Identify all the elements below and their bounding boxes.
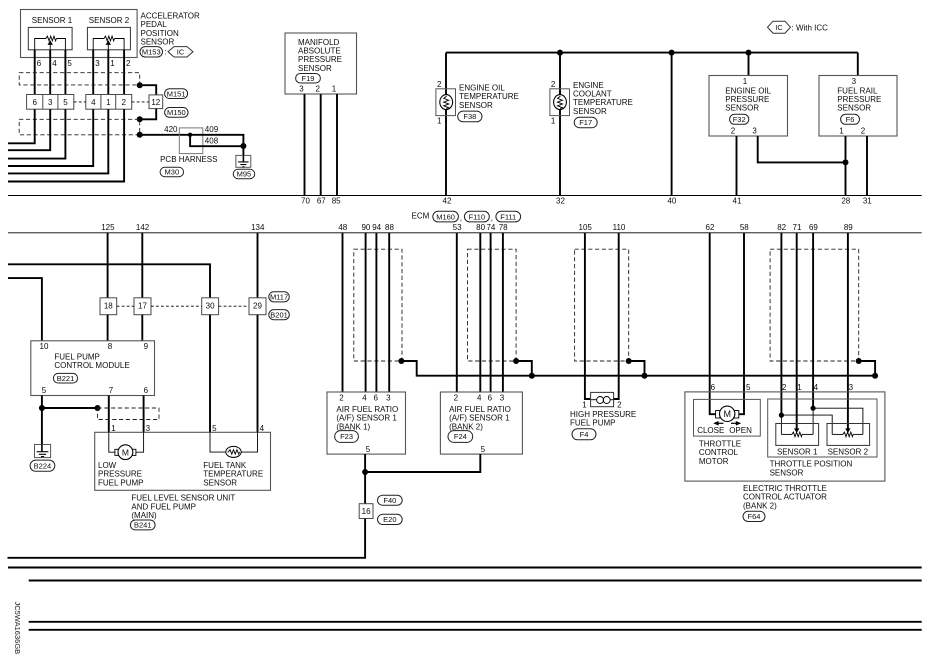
svg-text:12: 12	[151, 98, 160, 107]
throttle motor	[716, 411, 720, 419]
svg-text:1: 1	[332, 85, 337, 94]
svg-text:B224: B224	[34, 461, 52, 470]
svg-text:M153: M153	[142, 48, 161, 57]
wire staircase to left edge (x=93.2)	[8, 109, 93, 166]
svg-text:TEMPERATURE: TEMPERATURE	[573, 98, 633, 107]
svg-text:F110: F110	[469, 212, 486, 221]
junction node F23/F24 pin5	[362, 469, 368, 475]
svg-text:5: 5	[42, 386, 47, 395]
svg-text:AIR FUEL RATIO: AIR FUEL RATIO	[449, 405, 511, 414]
svg-text:ABSOLUTE: ABSOLUTE	[298, 47, 341, 56]
wire ECM 110 to pump pin2	[613, 233, 619, 399]
wire F6 pin1 to ECM 28	[845, 136, 847, 196]
junction node bus/F17	[557, 50, 563, 56]
svg-text:FUEL TANK: FUEL TANK	[203, 461, 247, 470]
svg-text:8: 8	[108, 342, 113, 351]
svg-text:42: 42	[443, 197, 452, 206]
power bus wire (top)	[446, 52, 858, 54]
wire staircase to left edge (x=65.4)	[8, 109, 65, 158]
connector label F111	[496, 211, 521, 222]
svg-text:5: 5	[481, 445, 486, 454]
wire ECM 125 to connector 18	[107, 233, 109, 298]
svg-text:2: 2	[126, 59, 131, 68]
connector boxes 4 1 2	[86, 95, 132, 110]
wire 420 shield drain to PCB harness	[140, 134, 190, 136]
connector label M150	[165, 108, 189, 118]
bus line 4	[29, 629, 922, 631]
connector label M153	[140, 47, 163, 57]
wire staircase to left edge (x=108.3)	[8, 109, 108, 173]
svg-text:10: 10	[40, 342, 49, 351]
svg-text:58: 58	[740, 223, 749, 232]
potentiometer sensor 1 element	[781, 433, 791, 435]
svg-text:2: 2	[861, 127, 866, 136]
svg-text:SENSOR 1: SENSOR 1	[777, 447, 818, 456]
svg-text:2: 2	[782, 383, 787, 392]
ground M95	[236, 155, 251, 167]
motor low pressure fuel pump	[115, 449, 119, 455]
svg-text:4: 4	[260, 424, 265, 433]
svg-text:40: 40	[667, 197, 676, 206]
junction node pin5	[39, 405, 45, 411]
potentiometer SENSOR 2	[87, 27, 130, 49]
connector label B201	[269, 310, 290, 320]
shield node pump	[626, 358, 632, 364]
svg-text:(MAIN): (MAIN)	[131, 511, 157, 520]
svg-text:CONTROL: CONTROL	[699, 448, 739, 457]
wire junction to connector 16	[364, 472, 366, 504]
svg-text:AND FUEL PUMP: AND FUEL PUMP	[131, 502, 196, 511]
svg-text:F17: F17	[579, 118, 592, 127]
ground B224	[35, 445, 51, 458]
svg-text:6: 6	[32, 98, 37, 107]
svg-text:105: 105	[579, 223, 593, 232]
electric throttle control actuator F64 box	[685, 392, 885, 481]
svg-text:M95: M95	[237, 170, 252, 179]
svg-text:LOW: LOW	[98, 461, 117, 470]
potentiometer SENSOR 1	[28, 27, 72, 49]
svg-text:PRESSURE: PRESSURE	[98, 470, 142, 479]
connector box 30	[202, 298, 219, 315]
svg-text:1: 1	[106, 98, 111, 107]
wire APP sensor pin to connector (x=124.1)	[123, 50, 125, 95]
svg-text:ENGINE: ENGINE	[573, 81, 604, 90]
connector box 12	[149, 95, 163, 109]
svg-text:17: 17	[138, 302, 147, 311]
shield node throttle	[856, 358, 862, 364]
shield dashed box (fuel pump harness)	[98, 408, 160, 420]
svg-text:F23: F23	[340, 432, 353, 441]
PCB harness box M30	[179, 128, 203, 154]
junction node in PCB harness	[188, 133, 192, 137]
bus line 1	[8, 567, 922, 569]
shield drop throttle	[859, 361, 875, 376]
svg-text:(BANK 2): (BANK 2)	[743, 501, 777, 510]
svg-text:29: 29	[253, 302, 262, 311]
svg-text:16: 16	[362, 507, 371, 516]
wire staircase to left edge (x=34.7)	[8, 109, 35, 143]
wire bus to F17 to ECM 32	[559, 53, 561, 196]
svg-text:6: 6	[37, 59, 42, 68]
dashed connector link	[74, 101, 86, 103]
svg-text:F111: F111	[500, 212, 516, 221]
connector box 29	[249, 298, 266, 315]
fuel level sensor unit box B241	[95, 432, 271, 490]
svg-text:5: 5	[67, 59, 72, 68]
connector label F19	[296, 74, 321, 84]
connector boxes 6 3 5 (M151/M150)	[27, 95, 74, 110]
svg-text:CLOSE: CLOSE	[697, 426, 724, 435]
svg-text:2: 2	[339, 394, 344, 403]
svg-text:2: 2	[454, 394, 459, 403]
ground label M95	[233, 169, 255, 178]
fuel rail pressure sensor F6 box	[819, 76, 897, 137]
svg-text:SENSOR: SENSOR	[459, 101, 493, 110]
svg-text:(BANK 1): (BANK 1)	[336, 422, 370, 431]
wire ECM 105 to pump pin1	[585, 233, 590, 399]
junction node bus/F32	[746, 50, 752, 56]
svg-text:FUEL PUMP: FUEL PUMP	[98, 478, 144, 487]
svg-text:4: 4	[91, 98, 96, 107]
svg-text:3: 3	[146, 424, 151, 433]
shield junction node lower	[137, 132, 143, 138]
connector label F23	[335, 431, 359, 443]
wire connector 12 to lower shield node	[140, 109, 157, 120]
svg-text:SENSOR: SENSOR	[837, 104, 871, 113]
wire APP sensor pin to connector (x=34.7)	[34, 50, 36, 95]
wire ECM 89 to TPS wiper 2	[847, 233, 849, 429]
svg-text:SENSOR 2: SENSOR 2	[89, 16, 130, 25]
svg-text:THROTTLE POSITION: THROTTLE POSITION	[770, 460, 853, 469]
accelerator pedal position sensor M153 outer box	[21, 10, 138, 58]
svg-text:3: 3	[386, 394, 391, 403]
svg-text:1: 1	[839, 127, 844, 136]
wire to ground M95	[242, 146, 244, 155]
svg-text:ECM: ECM	[412, 211, 430, 220]
shield node bank2	[513, 358, 519, 364]
svg-text:M160: M160	[436, 212, 455, 221]
svg-text:CONTROL ACTUATOR: CONTROL ACTUATOR	[743, 493, 827, 502]
ECM bottom boundary line	[8, 232, 922, 234]
svg-text:F32: F32	[733, 115, 746, 124]
svg-text:,: ,	[460, 214, 462, 223]
air fuel ratio sensor 1 bank 2 F24 box	[440, 392, 522, 454]
wire bus to ECM 40	[671, 53, 673, 196]
svg-text:1: 1	[551, 117, 556, 126]
svg-text:OPEN: OPEN	[729, 426, 752, 435]
svg-text:(BANK 2): (BANK 2)	[449, 422, 483, 431]
svg-text:1: 1	[437, 117, 442, 126]
svg-text:ELECTRIC THROTTLE: ELECTRIC THROTTLE	[743, 484, 827, 493]
ground label B224	[30, 460, 55, 471]
open arrow	[731, 422, 738, 424]
potentiometer sensor 2 box	[827, 424, 870, 446]
svg-text:IC: IC	[177, 48, 185, 57]
wire connector 30 to fuel pump pin 5	[209, 315, 211, 433]
svg-text:,: ,	[491, 214, 493, 223]
junction node pin3/pin1 wire	[843, 159, 849, 165]
svg-text:TEMPERATURE: TEMPERATURE	[459, 92, 519, 101]
svg-text:FUEL PUMP: FUEL PUMP	[54, 353, 100, 362]
dashed connector links row 2	[117, 305, 134, 307]
svg-text:SENSOR 2: SENSOR 2	[828, 447, 869, 456]
connector label F110	[464, 211, 489, 222]
engine oil temperature sensor F38	[436, 89, 456, 116]
wire pin5 node to shield node	[42, 407, 98, 409]
wire APP sensor pin to connector (x=93.2)	[92, 50, 94, 95]
wire bus to F32 pin 1	[748, 53, 750, 76]
wire F19 pin2 to ECM 67	[320, 94, 322, 196]
svg-text:125: 125	[101, 223, 115, 232]
svg-text:67: 67	[317, 197, 326, 206]
svg-text:9: 9	[144, 342, 149, 351]
throttle position sensor box	[768, 399, 877, 457]
wire ECM 74 to F24 pin6	[490, 233, 492, 392]
svg-text:78: 78	[499, 223, 508, 232]
connector box 16	[359, 504, 373, 519]
wire F6 pin2 to ECM 31	[866, 136, 868, 196]
svg-text:ENGINE OIL: ENGINE OIL	[725, 86, 771, 95]
connector label B241	[130, 520, 155, 530]
wire connector 16 to bottom-left	[8, 519, 366, 558]
wire ECM 80 to F24 pin4	[479, 233, 481, 392]
connector label M160	[433, 211, 459, 222]
svg-text:ACCELERATOR: ACCELERATOR	[141, 11, 200, 20]
svg-text:2: 2	[731, 127, 736, 136]
svg-text:COOLANT: COOLANT	[573, 90, 612, 99]
svg-text:M: M	[122, 447, 129, 457]
svg-text:94: 94	[372, 223, 381, 232]
svg-text:4: 4	[362, 394, 367, 403]
svg-text:2: 2	[437, 80, 442, 89]
IC option hexagon	[168, 47, 193, 57]
wire staircase to left edge (x=50.2)	[8, 109, 50, 150]
svg-text:71: 71	[793, 223, 802, 232]
svg-text:62: 62	[706, 223, 715, 232]
svg-text:6: 6	[711, 383, 716, 392]
svg-text:E20: E20	[383, 515, 396, 524]
svg-text:6: 6	[373, 394, 378, 403]
engine oil pressure sensor F32 box	[709, 76, 788, 137]
shield dashed box M151 upper	[19, 73, 140, 85]
TPS pin4 down to pot1	[812, 408, 814, 434]
manifold absolute pressure sensor F19 box	[285, 33, 357, 94]
ECM top boundary line	[8, 195, 922, 197]
svg-text:MANIFOLD: MANIFOLD	[298, 38, 340, 47]
svg-text:6: 6	[488, 394, 493, 403]
wire ECM 90 to F23 pin4	[365, 233, 367, 392]
throttle control motor box	[694, 399, 761, 436]
wire 408	[190, 135, 243, 146]
wire bus to F6 pin 3	[857, 53, 859, 76]
shield junction node	[95, 405, 101, 411]
svg-text:SENSOR: SENSOR	[203, 478, 237, 487]
svg-text:SENSOR 1: SENSOR 1	[32, 16, 73, 25]
svg-text:53: 53	[453, 223, 462, 232]
bus line 3	[29, 621, 922, 623]
svg-text:4: 4	[477, 394, 482, 403]
wire ECM 48 to F23 pin2	[342, 233, 344, 392]
svg-text:4: 4	[814, 383, 819, 392]
svg-text:31: 31	[863, 197, 872, 206]
shield dashed box A/F bank1	[354, 249, 402, 361]
svg-text:PRESSURE: PRESSURE	[725, 95, 769, 104]
svg-text:1: 1	[743, 77, 748, 86]
svg-text:2: 2	[315, 85, 320, 94]
wire from left edge to connector 30	[8, 264, 210, 298]
svg-text:3: 3	[849, 383, 854, 392]
connector label F38	[458, 111, 482, 122]
svg-text:5: 5	[746, 383, 751, 392]
svg-text:3: 3	[500, 394, 505, 403]
wire ECM 142 to connector 17	[141, 233, 143, 298]
connector box 18	[100, 298, 117, 315]
svg-text:1: 1	[110, 59, 115, 68]
wire ECM 88 to F23 pin3	[388, 233, 390, 392]
svg-text:420: 420	[164, 125, 178, 134]
svg-text:F40: F40	[383, 496, 396, 505]
wiper arrow sensor 2	[845, 428, 850, 433]
shield dashed box throttle sensors	[770, 249, 859, 361]
svg-text:1: 1	[111, 424, 116, 433]
wire ECM 69 to TPS	[812, 233, 814, 408]
svg-text:5: 5	[366, 445, 371, 454]
svg-text:2: 2	[617, 401, 622, 410]
svg-text:89: 89	[844, 223, 853, 232]
wire F19 pin3 to ECM 70	[304, 94, 306, 196]
wire F23 pin5 down	[364, 454, 366, 472]
TPS jumper pin4	[811, 406, 816, 411]
wire shield to connector 12	[140, 85, 157, 95]
svg-text:3: 3	[95, 59, 100, 68]
svg-text:90: 90	[361, 223, 370, 232]
connector label F32	[730, 114, 749, 124]
wire F32 pin2 to ECM 41	[736, 136, 738, 196]
svg-text:1: 1	[797, 383, 802, 392]
svg-text::: :	[164, 48, 166, 57]
svg-text:F4: F4	[580, 430, 589, 439]
svg-text:MOTOR: MOTOR	[699, 457, 729, 466]
TPS pin2 down to pot1 left	[780, 415, 782, 434]
potentiometer sensor 2 element	[832, 433, 842, 435]
svg-text:6: 6	[144, 386, 149, 395]
svg-text:M117: M117	[270, 293, 288, 302]
svg-text:82: 82	[777, 223, 786, 232]
svg-text:TEMPERATURE: TEMPERATURE	[203, 470, 263, 479]
connector label E20	[378, 514, 403, 524]
shield node bank1	[398, 358, 404, 364]
svg-text:F64: F64	[748, 512, 761, 521]
svg-text:FUEL PUMP: FUEL PUMP	[570, 419, 616, 428]
fuel pump control module B221 box	[31, 341, 155, 396]
wire ECM 94 to F23 pin6	[375, 233, 377, 392]
wiper arrow sensor 1	[794, 428, 799, 433]
svg-text:(A/F) SENSOR 1: (A/F) SENSOR 1	[449, 414, 510, 423]
connector label F64	[743, 511, 765, 521]
wire fuel unit pin4 to tank sensor	[241, 432, 257, 452]
svg-text:SENSOR: SENSOR	[725, 104, 759, 113]
high pressure fuel pump F4 coil	[591, 392, 614, 406]
svg-text:408: 408	[205, 137, 219, 146]
junction node 408/409	[240, 143, 246, 149]
wire connector 18 to B221 pin 8	[107, 315, 109, 341]
svg-text:PEDAL: PEDAL	[141, 20, 168, 29]
connector label F40	[378, 495, 403, 505]
connector label B221	[53, 373, 77, 383]
svg-text:ENGINE OIL: ENGINE OIL	[459, 83, 505, 92]
connector label M117	[269, 292, 290, 302]
svg-text:18: 18	[104, 302, 113, 311]
wire fuel unit pin5 to tank sensor	[210, 432, 226, 452]
wire from left edge to B221 pin 10	[8, 278, 42, 341]
svg-text:IC: IC	[775, 23, 783, 32]
connector label M151	[165, 89, 188, 99]
svg-text:AIR FUEL RATIO: AIR FUEL RATIO	[336, 405, 398, 414]
svg-text:7: 7	[109, 386, 114, 395]
svg-text:30: 30	[206, 302, 215, 311]
svg-text:4: 4	[52, 59, 57, 68]
svg-text:M150: M150	[167, 108, 186, 117]
svg-text:1: 1	[582, 401, 587, 410]
svg-text:409: 409	[205, 125, 219, 134]
svg-text:PRESSURE: PRESSURE	[837, 95, 881, 104]
engine coolant temperature sensor F17	[550, 89, 570, 116]
wire F32 pin3 to node	[758, 136, 846, 162]
svg-text:M30: M30	[165, 168, 180, 177]
wire F24 pin5 to junction	[365, 454, 480, 472]
connector label F4	[572, 429, 596, 440]
svg-text:3: 3	[48, 98, 53, 107]
svg-text:69: 69	[809, 223, 818, 232]
wire B221 pin7 to fuel pump pin 1	[108, 396, 110, 433]
junction node bus/ECM40	[669, 50, 675, 56]
svg-text:PCB HARNESS: PCB HARNESS	[160, 155, 217, 164]
svg-text:M151: M151	[167, 89, 186, 98]
svg-text:B221: B221	[57, 374, 75, 383]
svg-text:3: 3	[852, 77, 857, 86]
svg-text:5: 5	[212, 424, 217, 433]
wire ECM 82 to TPS	[780, 233, 782, 415]
wire ECM 71 to TPS wiper 1	[796, 233, 798, 429]
svg-text:THROTTLE: THROTTLE	[699, 440, 741, 449]
wire APP sensor pin to connector (x=65.4)	[64, 50, 66, 95]
svg-text:B241: B241	[134, 521, 152, 530]
potentiometer sensor 1 box	[776, 424, 819, 446]
svg-text:32: 32	[556, 197, 565, 206]
svg-text:2: 2	[551, 80, 556, 89]
TPS jumper pin2	[779, 413, 784, 418]
wire bus to F38 to ECM 42	[445, 53, 447, 196]
svg-text:F19: F19	[302, 74, 315, 83]
svg-text:70: 70	[301, 197, 310, 206]
svg-text:41: 41	[733, 197, 742, 206]
shield drop pump	[629, 361, 645, 376]
svg-text:F38: F38	[463, 112, 476, 121]
connector label F6	[841, 114, 860, 124]
wire ECM 53 to F24 pin2	[456, 233, 458, 392]
svg-text:5: 5	[63, 98, 68, 107]
svg-text:B201: B201	[270, 310, 288, 319]
svg-text:SENSOR: SENSOR	[298, 64, 332, 73]
air fuel ratio sensor 1 bank 1 F23 box	[327, 392, 406, 454]
svg-text:134: 134	[251, 223, 265, 232]
close arrow	[717, 422, 724, 424]
svg-text:PRESSURE: PRESSURE	[298, 55, 342, 64]
svg-text:(A/F) SENSOR 1: (A/F) SENSOR 1	[336, 414, 397, 423]
shield junction node upper	[137, 82, 143, 88]
IC legend hexagon	[768, 21, 791, 33]
wire fuel pump pin1 to motor	[109, 432, 115, 452]
